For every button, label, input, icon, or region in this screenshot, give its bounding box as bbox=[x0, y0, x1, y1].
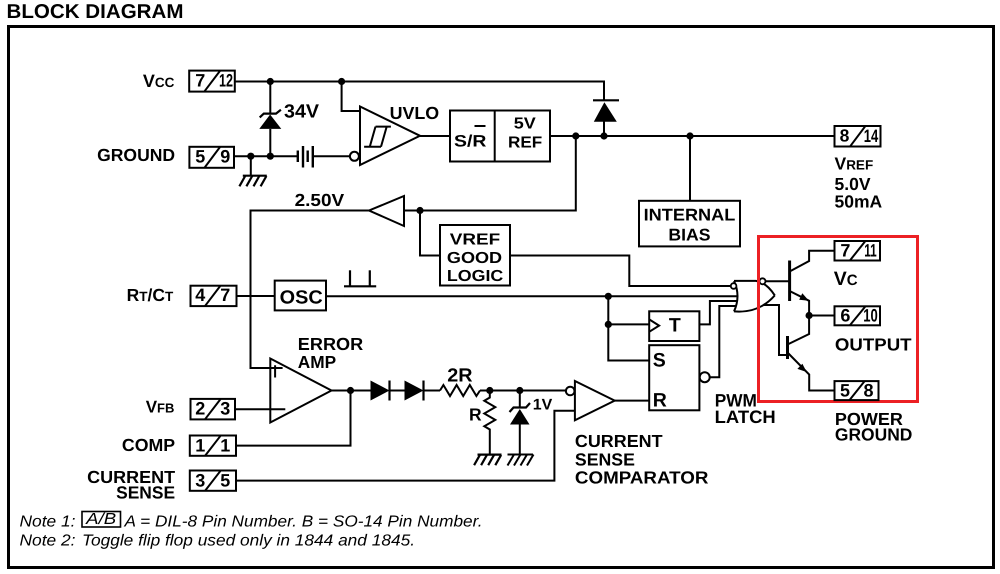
wire T output to gate bbox=[699, 301, 737, 324]
svg-text:50mA: 50mA bbox=[835, 192, 883, 212]
svg-text:A/B: A/B bbox=[85, 511, 117, 528]
ground symbol under 1V zener bbox=[508, 455, 534, 466]
junction error amp output/COMP bbox=[347, 387, 354, 394]
svg-text:7: 7 bbox=[195, 70, 205, 90]
svg-text:RT/CT: RT/CT bbox=[127, 285, 174, 305]
wire diode D1 stem bbox=[603, 122, 605, 137]
svg-text:5: 5 bbox=[195, 147, 205, 167]
svg-text:VC: VC bbox=[834, 268, 858, 290]
box INTERNAL BIAS bbox=[639, 201, 740, 247]
svg-text:2R: 2R bbox=[447, 365, 473, 386]
svg-text:A = DIL-8 Pin Number. B = SO-1: A = DIL-8 Pin Number. B = SO-14 Pin Numb… bbox=[123, 514, 482, 531]
box 5V REF bbox=[508, 116, 542, 152]
svg-text:6: 6 bbox=[840, 306, 850, 326]
svg-text:S/R: S/R bbox=[454, 133, 486, 151]
svg-text:1: 1 bbox=[220, 435, 230, 455]
svg-text:Toggle flip flop used only in: Toggle flip flop used only in 1844 and 1… bbox=[82, 533, 415, 550]
comparator UVLO bbox=[350, 103, 439, 165]
wire Vcc net bbox=[235, 82, 604, 101]
svg-text:T: T bbox=[669, 315, 681, 337]
svg-text:3: 3 bbox=[220, 399, 230, 419]
wire 2R to comparator bbox=[480, 390, 566, 392]
svg-text:COMP: COMP bbox=[122, 435, 176, 455]
svg-text:VFB: VFB bbox=[146, 398, 175, 417]
wire vref good logic output to gate bbox=[510, 256, 731, 287]
wire to T clock input bbox=[608, 323, 649, 325]
svg-text:GOOD: GOOD bbox=[447, 250, 502, 267]
svg-text:9: 9 bbox=[220, 147, 230, 167]
wire COMP net bbox=[236, 391, 351, 446]
svg-text:S: S bbox=[653, 350, 666, 372]
pin box 6/10 bbox=[835, 306, 881, 326]
svg-text:5: 5 bbox=[220, 470, 230, 490]
pin box 4/7 bbox=[191, 285, 237, 306]
wire OSC output to gate bbox=[326, 295, 738, 297]
resistor R bbox=[484, 391, 495, 455]
svg-text:UVLO: UVLO bbox=[390, 103, 440, 123]
svg-text:VREF: VREF bbox=[450, 232, 501, 249]
flip-flop T bbox=[649, 311, 699, 341]
wire output node to Q2 collector bbox=[788, 316, 810, 345]
pin label CURRENT SENSE bbox=[87, 467, 175, 502]
svg-text:2.50V: 2.50V bbox=[295, 190, 345, 210]
wire gate bottom output to Q2 base bbox=[764, 305, 788, 355]
pin box 2/3 bbox=[191, 399, 236, 420]
diode D1 bbox=[593, 100, 619, 121]
svg-text:4: 4 bbox=[195, 285, 205, 305]
svg-text:LOGIC: LOGIC bbox=[447, 268, 504, 285]
wire error amp output bbox=[332, 390, 372, 392]
svg-text:34V: 34V bbox=[284, 101, 319, 122]
svg-text:GROUND: GROUND bbox=[97, 145, 175, 165]
zener D5 34V bbox=[259, 101, 319, 128]
svg-text:BIAS: BIAS bbox=[668, 226, 710, 245]
label VREF 5.0V 50mA bbox=[835, 154, 883, 212]
svg-text:ERROR: ERROR bbox=[298, 334, 364, 354]
wire RT/CT to OSC bbox=[237, 295, 275, 297]
wire gate top output to Q1 base bbox=[765, 280, 789, 282]
box OSC bbox=[275, 281, 326, 311]
svg-text:R: R bbox=[653, 389, 667, 411]
wire buffer branch to vref good logic bbox=[420, 211, 440, 256]
zener D4 1V stem bbox=[519, 391, 521, 407]
junction ground/gnd-symbol bbox=[247, 153, 254, 160]
note 1 bbox=[20, 511, 483, 550]
junction Vcc/zener bbox=[267, 78, 274, 85]
svg-text:7: 7 bbox=[220, 285, 230, 305]
svg-text:8: 8 bbox=[840, 126, 850, 146]
pin box 8/14 bbox=[835, 126, 881, 147]
wire battery to UVLO bubble bbox=[313, 155, 350, 157]
svg-text:OSC: OSC bbox=[280, 288, 323, 309]
op-amp error amp bbox=[270, 334, 364, 422]
box VREF GOOD LOGIC bbox=[440, 225, 510, 286]
junction T clock tap bbox=[605, 321, 612, 328]
junction 2R/R bbox=[486, 387, 493, 394]
junction Vcc/UVLO bbox=[338, 78, 345, 85]
svg-text:LATCH: LATCH bbox=[715, 407, 776, 427]
wire zener stem bottom bbox=[269, 129, 271, 156]
wire zener stem top bbox=[269, 82, 271, 115]
wire comparator output to R input bbox=[615, 400, 650, 402]
wire ground stem bbox=[250, 156, 252, 176]
svg-text:INTERNAL: INTERNAL bbox=[644, 205, 736, 224]
wire VFB input bbox=[236, 408, 271, 410]
pin box 5/9 bbox=[189, 147, 234, 168]
wire output node to 6/10 bbox=[809, 315, 834, 317]
svg-text:COMPARATOR: COMPARATOR bbox=[575, 468, 709, 488]
wire to latch S input bbox=[608, 296, 649, 360]
wire internal bias stem bbox=[689, 136, 691, 201]
pin box 3/5 bbox=[190, 470, 236, 491]
pin box 7/12 bbox=[189, 70, 235, 91]
svg-text:SENSE: SENSE bbox=[575, 449, 635, 469]
wire vref to buffer input bbox=[404, 136, 576, 211]
svg-text:SENSE: SENSE bbox=[116, 482, 175, 502]
svg-text:R: R bbox=[469, 405, 482, 425]
wire diode D2 to D3 bbox=[390, 390, 405, 392]
svg-text:AMP: AMP bbox=[298, 352, 337, 372]
svg-text:2: 2 bbox=[195, 399, 205, 419]
label POWER GROUND bbox=[835, 409, 913, 445]
svg-text:VREF: VREF bbox=[835, 154, 874, 174]
wire latch output to gate bbox=[710, 306, 737, 377]
pin box 5/8 bbox=[835, 380, 879, 400]
zener D4 1V bbox=[510, 397, 553, 425]
junction output node bbox=[806, 312, 813, 319]
junction OSC line bbox=[605, 293, 612, 300]
svg-text:12: 12 bbox=[219, 70, 233, 90]
svg-text:5V: 5V bbox=[514, 116, 536, 133]
resistor 2R bbox=[440, 385, 480, 396]
wire current sense net bbox=[236, 411, 575, 481]
transistor Q1 bbox=[790, 261, 809, 302]
ground symbol left bbox=[239, 176, 266, 187]
transistor Q2 bbox=[788, 336, 807, 372]
svg-text:7: 7 bbox=[840, 241, 850, 261]
svg-text:1V: 1V bbox=[533, 397, 553, 414]
ground symbol under R bbox=[474, 455, 501, 466]
svg-text:VCC: VCC bbox=[143, 71, 175, 91]
wire D3 to 2R bbox=[424, 390, 441, 392]
svg-text:CURRENT: CURRENT bbox=[575, 431, 663, 451]
pin box 7/11 bbox=[835, 241, 881, 261]
svg-text:3: 3 bbox=[195, 470, 205, 490]
buffer 2.50V bbox=[295, 190, 404, 226]
comparator current sense bbox=[566, 381, 709, 488]
wire Q1 emitter bbox=[790, 291, 810, 316]
wire Q2 emitter to 5/8 bbox=[788, 353, 835, 391]
junction node/zener 1V bbox=[516, 387, 523, 394]
svg-text:BLOCK DIAGRAM: BLOCK DIAGRAM bbox=[7, 1, 184, 23]
battery reference bbox=[298, 146, 313, 168]
wire VREF net bbox=[550, 135, 835, 137]
wire 2.50V net bbox=[251, 211, 370, 369]
svg-text:14: 14 bbox=[864, 126, 879, 146]
junction ground/zener bbox=[267, 153, 274, 160]
junction buffer/vref-good bbox=[416, 207, 423, 214]
svg-text:1: 1 bbox=[195, 435, 205, 455]
wire ground net bbox=[234, 155, 298, 157]
svg-text:Note 2:: Note 2: bbox=[20, 533, 76, 550]
svg-text:11: 11 bbox=[864, 241, 877, 261]
pin box 1/1 bbox=[190, 435, 236, 456]
svg-text:Note 1:: Note 1: bbox=[20, 514, 76, 531]
PWM latch bbox=[649, 345, 776, 427]
svg-text:REF: REF bbox=[508, 135, 542, 152]
diode D2 bbox=[371, 381, 390, 401]
wire UVLO plus input bbox=[342, 82, 360, 112]
diode D3 bbox=[405, 381, 424, 401]
junction VREF/buffer feed bbox=[572, 132, 579, 139]
clock waveform glyph bbox=[344, 270, 376, 286]
red highlight box bbox=[759, 237, 918, 402]
wire UVLO output to S/R bbox=[420, 135, 450, 137]
zener D4 stem bottom bbox=[519, 425, 521, 455]
svg-text:8: 8 bbox=[863, 380, 873, 400]
svg-text:GROUND: GROUND bbox=[835, 425, 913, 445]
box S/R bbox=[450, 111, 550, 162]
svg-text:5: 5 bbox=[840, 380, 850, 400]
junction VREF/diode D1 bbox=[600, 132, 607, 139]
svg-text:OUTPUT: OUTPUT bbox=[835, 334, 912, 354]
gate NOR bbox=[731, 278, 775, 311]
junction VREF/internal bias bbox=[686, 132, 693, 139]
svg-text:10: 10 bbox=[863, 306, 878, 326]
wire Q1 collector to 7/11 bbox=[790, 251, 835, 272]
